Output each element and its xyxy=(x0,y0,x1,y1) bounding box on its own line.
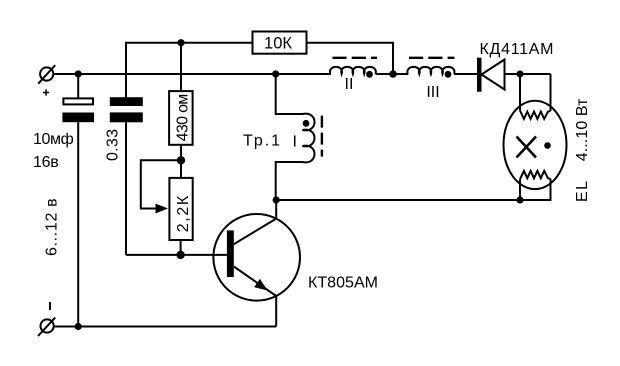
core II (dashed) xyxy=(332,57,377,59)
svg-text:16в: 16в xyxy=(33,154,59,171)
diode VD1 КД411АМ xyxy=(477,58,505,92)
transformer T1 winding III xyxy=(407,67,454,74)
wire lamp top-right pin xyxy=(550,74,552,111)
junction R1/R2 top xyxy=(177,39,184,46)
label + xyxy=(43,89,49,95)
svg-text:КД411АМ: КД411АМ xyxy=(480,41,554,58)
wire negative rail xyxy=(55,326,277,328)
wire lamp bottom-right pin xyxy=(520,179,551,200)
svg-text:Тр.1: Тр.1 xyxy=(243,133,280,150)
svg-text:0.33: 0.33 xyxy=(105,129,122,161)
svg-text:КТ805АМ: КТ805АМ xyxy=(308,275,378,292)
lamp bottom filament xyxy=(520,171,551,179)
polarity dot winding III xyxy=(445,71,452,78)
core III (dashed) xyxy=(409,57,455,59)
junction collector / winding I xyxy=(273,196,280,203)
wiper arm of R3 xyxy=(141,160,181,213)
svg-text:I: I xyxy=(293,134,297,151)
wire positive rail xyxy=(54,73,331,75)
resistor R1 10К xyxy=(253,32,307,54)
lamp dot mark xyxy=(544,142,551,149)
transformer T1 winding I xyxy=(276,74,315,200)
svg-text:EL: EL xyxy=(574,181,591,202)
wire emitter down xyxy=(275,296,277,327)
junction R2/R3 xyxy=(177,156,185,164)
svg-text:II: II xyxy=(345,76,354,93)
wire lamp bottom-left pin xyxy=(519,179,521,200)
wire II to III xyxy=(376,73,409,75)
transformer T1 winding II xyxy=(330,67,376,74)
lamp X mark xyxy=(517,137,537,158)
junction C1 top xyxy=(75,70,82,77)
svg-text:III: III xyxy=(426,84,439,101)
junction lamp top xyxy=(516,70,523,77)
terminal X1 (+ input) xyxy=(38,65,55,84)
label - xyxy=(49,302,51,310)
core of T1 (dashed) xyxy=(321,116,323,157)
terminal X2 (- input) xyxy=(38,318,55,336)
svg-text:430 ом: 430 ом xyxy=(175,94,192,142)
wire collector to lamp xyxy=(276,199,520,201)
junction winding I top xyxy=(272,70,279,77)
wire lamp top-left pin xyxy=(519,74,521,111)
wire diode to lamp xyxy=(505,73,551,75)
wire III to diode xyxy=(454,73,477,75)
svg-text:6...12 в: 6...12 в xyxy=(44,198,61,256)
junction lamp bottom xyxy=(516,196,523,203)
resistor R3 2.2К (rheostat) xyxy=(169,160,192,255)
svg-text:10К: 10К xyxy=(264,35,292,53)
capacitor C2 0.33 xyxy=(110,97,143,122)
lamp top filament xyxy=(520,111,551,119)
polarity dot winding I xyxy=(303,120,310,127)
junction C1 bottom xyxy=(75,323,82,330)
wire C2 top to upper rail xyxy=(126,43,252,97)
svg-text:2,2К: 2,2К xyxy=(175,195,192,232)
svg-text:4...10 Вт: 4...10 Вт xyxy=(574,98,591,161)
svg-text:10мф: 10мф xyxy=(33,131,74,148)
wire base rail xyxy=(126,254,227,256)
wire C2 bottom to base rail xyxy=(125,122,127,255)
junction windings II/III xyxy=(389,70,397,78)
wire collector up xyxy=(275,200,277,219)
capacitor C1 10мф (electrolytic) xyxy=(62,74,94,122)
junction R3 bottom / base xyxy=(176,251,184,259)
transistor Q1 КТ805АМ xyxy=(213,214,300,301)
polarity dot winding II xyxy=(366,71,373,78)
lamp EL envelope xyxy=(504,101,567,189)
wire 10K right to windings junction xyxy=(308,43,394,74)
resistor R2 430 ом xyxy=(169,43,193,161)
wire C1 to negative rail xyxy=(77,122,79,326)
